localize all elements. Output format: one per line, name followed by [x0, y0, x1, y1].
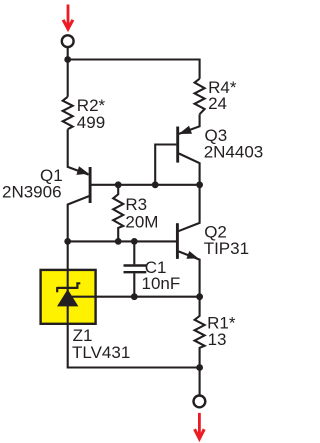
capacitor C1 [124, 241, 147, 296]
wire: Q3 collector [179, 154, 200, 185]
Z1 cathode bar [57, 287, 77, 289]
transistor Q2 bar [176, 223, 179, 259]
wire: R3 bottom to C1 top [118, 240, 134, 242]
output terminal [194, 396, 206, 408]
svg-text:13: 13 [208, 330, 227, 349]
svg-text:TLV431: TLV431 [72, 343, 130, 362]
transistor Q3 bar [176, 127, 179, 163]
resistor R4 [195, 79, 205, 115]
wire: Z1 anode down and across to output node [68, 306, 200, 368]
svg-text:2N4403: 2N4403 [204, 143, 264, 162]
wire: Q1 base to R3 node [91, 184, 118, 186]
wire: terminal to R2 top [67, 48, 69, 97]
transistor Q2 emitter arrow [186, 251, 198, 259]
wire: node to Z1 cathode [67, 241, 69, 292]
junction: output node [196, 364, 203, 371]
svg-text:R3: R3 [125, 195, 147, 214]
svg-text:TIP31: TIP31 [204, 239, 249, 258]
wire: Q1 collector down to lower node [68, 196, 90, 241]
junction: top node [64, 56, 71, 63]
wire: collector node down to Q2 collector [178, 185, 199, 231]
wire: R4 to Q3 emitter [179, 114, 200, 134]
resistor R3 [113, 185, 123, 242]
svg-text:10nF: 10nF [142, 274, 181, 293]
junction: R3 top [115, 181, 122, 188]
shunt regulator Z1 anode triangle [57, 289, 78, 306]
wire: top rail to R4 [68, 60, 200, 79]
svg-text:24: 24 [208, 94, 227, 113]
wire: output node to output terminal [199, 368, 201, 395]
junction: C1 bottom [131, 293, 138, 300]
output arrow (red, bottom) [195, 413, 205, 439]
junction: Q3 base node [152, 181, 159, 188]
input terminal [62, 35, 74, 47]
resistor R2 [63, 97, 73, 129]
junction: C1 top [131, 238, 138, 245]
transistor Q1 bar [89, 167, 92, 203]
wire: Q3 base node to Q3 collector node [155, 184, 199, 186]
wire: R3 node to Q3 base node [118, 184, 155, 186]
junction: R1 top [196, 293, 203, 300]
wire: Q2 emitter [179, 251, 200, 296]
svg-text:2N3906: 2N3906 [2, 183, 62, 202]
wire: C1 top to Q2 base [134, 240, 176, 242]
wire: R2 to Q1 emitter [68, 129, 89, 174]
junction: Q3 collector node [196, 181, 203, 188]
Z1 reference hook [77, 283, 80, 289]
wire: C1 bottom node to Q2 emitter node [134, 296, 199, 298]
Z1 cathode bar left tick [56, 287, 58, 292]
svg-text:499: 499 [77, 113, 105, 132]
input arrow (red, top) [63, 5, 73, 29]
svg-text:20M: 20M [125, 213, 158, 232]
junction: Q1 collector / Z1 node [64, 238, 71, 245]
resistor R1 [195, 297, 205, 368]
highlight box (yellow) around Z1 [41, 270, 96, 324]
wire: Q3 base [155, 145, 176, 185]
wire: lower node to R3 bottom [68, 240, 119, 242]
junction: R3 bottom [115, 238, 122, 245]
Z1 reference line to C1/R1 net [68, 296, 135, 298]
transistor Q1 emitter arrow [76, 166, 88, 175]
transistor Q3 emitter arrow [179, 126, 192, 134]
